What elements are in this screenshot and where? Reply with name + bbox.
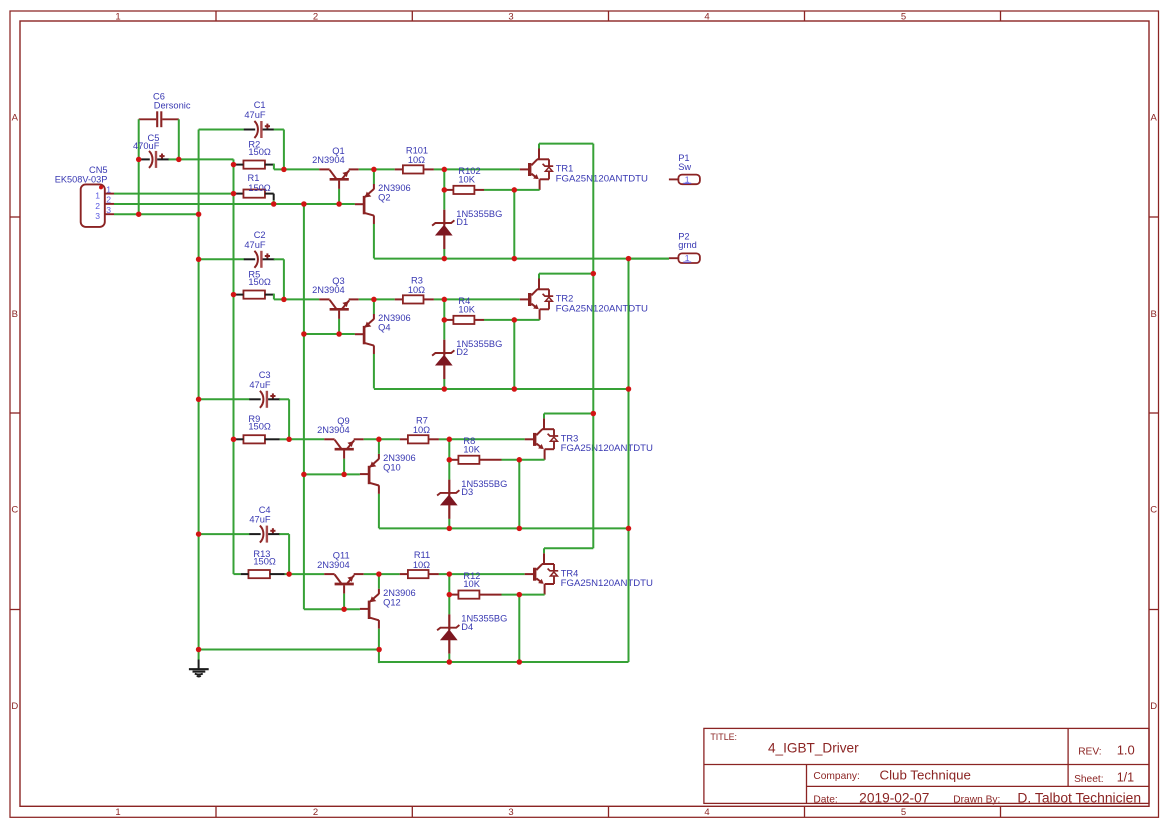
svg-text:2: 2 (95, 201, 100, 211)
svg-text:3: 3 (95, 211, 100, 221)
svg-text:10K: 10K (458, 175, 475, 185)
svg-text:A: A (12, 112, 19, 123)
svg-text:3: 3 (508, 807, 513, 818)
svg-text:TR2: TR2 (556, 294, 574, 304)
svg-text:R7: R7 (416, 415, 428, 425)
svg-text:D4: D4 (461, 622, 473, 632)
svg-text:A: A (1151, 112, 1158, 123)
svg-text:Q4: Q4 (378, 323, 390, 333)
svg-text:2N3906: 2N3906 (378, 313, 411, 323)
svg-text:Sheet:: Sheet: (1074, 774, 1103, 785)
svg-text:2N3904: 2N3904 (317, 425, 350, 435)
svg-text:3: 3 (106, 205, 111, 215)
svg-text:150Ω: 150Ω (248, 147, 271, 157)
svg-text:R11: R11 (414, 550, 430, 560)
svg-text:FGA25N120ANTDTU: FGA25N120ANTDTU (556, 173, 648, 183)
svg-text:Q2: Q2 (378, 193, 390, 203)
svg-text:1: 1 (106, 184, 111, 194)
svg-text:C: C (11, 504, 18, 515)
svg-text:B: B (1151, 309, 1157, 320)
svg-text:C2: C2 (254, 230, 266, 240)
svg-text:10Ω: 10Ω (408, 285, 425, 295)
svg-text:C: C (1150, 504, 1157, 515)
svg-text:5: 5 (901, 807, 906, 818)
svg-text:C4: C4 (259, 505, 271, 515)
svg-text:47uF: 47uF (244, 110, 266, 120)
svg-text:C3: C3 (259, 370, 271, 380)
svg-text:150Ω: 150Ω (248, 277, 271, 287)
svg-text:2: 2 (313, 11, 318, 22)
svg-text:10Ω: 10Ω (413, 425, 430, 435)
svg-text:C1: C1 (254, 100, 266, 110)
svg-text:150Ω: 150Ω (253, 557, 276, 567)
svg-text:FGA25N120ANTDTU: FGA25N120ANTDTU (561, 443, 653, 453)
svg-text:D: D (1150, 701, 1157, 712)
svg-text:R101: R101 (406, 146, 428, 156)
svg-text:5: 5 (901, 11, 906, 22)
svg-text:TR4: TR4 (561, 568, 579, 578)
svg-text:1: 1 (115, 807, 120, 818)
svg-text:47uF: 47uF (249, 380, 271, 390)
svg-text:REV:: REV: (1078, 747, 1101, 758)
svg-text:2N3904: 2N3904 (312, 285, 345, 295)
svg-text:Date:: Date: (813, 795, 837, 806)
svg-text:2N3906: 2N3906 (378, 183, 411, 193)
svg-text:TITLE:: TITLE: (710, 732, 737, 742)
svg-text:FGA25N120ANTDTU: FGA25N120ANTDTU (561, 578, 653, 588)
svg-text:4: 4 (704, 807, 709, 818)
svg-text:10K: 10K (463, 579, 480, 589)
svg-text:Drawn By:: Drawn By: (953, 795, 1000, 806)
svg-text:D. Talbot Technicien: D. Talbot Technicien (1017, 790, 1141, 805)
svg-text:47uF: 47uF (249, 515, 271, 525)
svg-text:Club Technique: Club Technique (880, 768, 971, 783)
svg-text:10Ω: 10Ω (413, 560, 430, 570)
svg-text:2N3904: 2N3904 (312, 155, 345, 165)
svg-text:10K: 10K (458, 305, 475, 315)
svg-text:Dersonic: Dersonic (154, 100, 191, 110)
svg-text:3: 3 (508, 11, 513, 22)
svg-text:R1: R1 (248, 173, 260, 183)
svg-text:150Ω: 150Ω (248, 422, 271, 432)
svg-text:10Ω: 10Ω (408, 155, 425, 165)
svg-text:2N3906: 2N3906 (383, 453, 416, 463)
svg-text:2N3904: 2N3904 (317, 560, 350, 570)
svg-text:2019-02-07: 2019-02-07 (859, 790, 929, 805)
svg-text:B: B (12, 309, 18, 320)
svg-text:150Ω: 150Ω (248, 183, 271, 193)
svg-text:1.0: 1.0 (1117, 743, 1135, 758)
svg-text:Q12: Q12 (383, 597, 401, 607)
svg-text:TR1: TR1 (556, 164, 574, 174)
svg-text:EK508V-03P: EK508V-03P (55, 174, 108, 184)
svg-text:47uF: 47uF (244, 240, 266, 250)
svg-text:2: 2 (313, 807, 318, 818)
svg-text:D1: D1 (456, 217, 468, 227)
svg-text:1: 1 (95, 191, 100, 201)
svg-text:4: 4 (704, 11, 709, 22)
svg-text:2: 2 (106, 195, 111, 205)
svg-text:1: 1 (115, 11, 120, 22)
svg-text:grnd: grnd (678, 240, 697, 250)
svg-text:TR3: TR3 (561, 434, 579, 444)
svg-text:2N3906: 2N3906 (383, 588, 416, 598)
svg-text:Company:: Company: (813, 771, 859, 782)
svg-text:Sw: Sw (678, 162, 691, 172)
svg-text:R3: R3 (411, 276, 423, 286)
svg-text:1/1: 1/1 (1117, 771, 1134, 785)
svg-text:D3: D3 (461, 487, 473, 497)
svg-text:D: D (11, 701, 18, 712)
svg-text:10K: 10K (463, 444, 480, 454)
svg-text:470uF: 470uF (133, 141, 160, 151)
svg-text:D2: D2 (456, 347, 468, 357)
svg-text:4_IGBT_Driver: 4_IGBT_Driver (768, 740, 859, 755)
svg-text:FGA25N120ANTDTU: FGA25N120ANTDTU (556, 303, 648, 313)
svg-text:Q10: Q10 (383, 463, 401, 473)
